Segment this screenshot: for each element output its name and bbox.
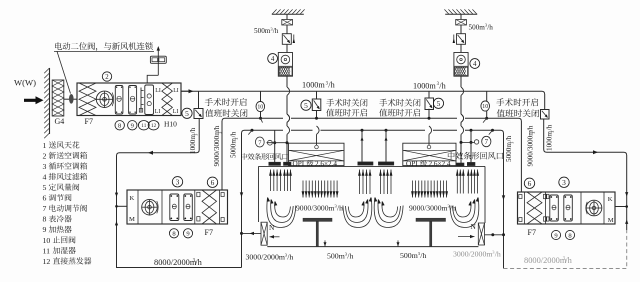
left stack duct lower with hops	[286, 76, 288, 87]
svg-text:/h: /h	[527, 125, 535, 131]
filter G4	[52, 80, 64, 116]
svg-text:/h: /h	[505, 135, 513, 141]
return grille bars middle	[358, 162, 373, 165]
room left wall	[258, 166, 260, 222]
AHU fan	[96, 91, 112, 107]
label circle 4 left	[268, 54, 278, 64]
electric two-position valve (ellipse)	[69, 94, 74, 104]
ceiling supply unit OPI room1	[289, 143, 345, 165]
check valve 10 left	[260, 91, 262, 102]
svg-text:5: 5	[43, 183, 47, 192]
left return loop duct	[117, 119, 242, 268]
room1 left airflow arcs	[267, 198, 296, 228]
left unit coil 9	[184, 194, 193, 221]
svg-text:500m: 500m	[469, 23, 486, 31]
text: closed during surgery / open on duty (mid-right)	[379, 99, 387, 107]
left stack damper (bowtie)	[282, 20, 293, 26]
right unit coil 9	[550, 195, 559, 221]
mid-right CAV valve 5	[428, 91, 430, 98]
svg-text:/h: /h	[230, 131, 238, 137]
labels 8 9 11 12 under AHU	[115, 121, 124, 130]
mid-left CAV valve 5	[316, 91, 318, 99]
right room return riser (5000)	[501, 130, 504, 268]
svg-text:H10: H10	[164, 119, 177, 128]
right stack regulating damper	[457, 34, 466, 45]
svg-text:/h: /h	[450, 203, 456, 212]
svg-text:8000/2000m: 8000/2000m	[154, 258, 197, 267]
svg-text:N: N	[269, 223, 275, 232]
svg-text:6: 6	[211, 178, 215, 187]
svg-text:/h: /h	[328, 81, 334, 90]
svg-text:/h: /h	[347, 252, 353, 261]
svg-text:/h: /h	[287, 252, 293, 261]
right return loop duct	[544, 119, 627, 230]
operating table room2	[416, 218, 446, 221]
room right wall	[484, 166, 486, 223]
room2 supply down-arrow cluster	[412, 181, 414, 198]
svg-text:9000/3000m: 9000/3000m	[213, 130, 221, 167]
left unit labels	[172, 177, 182, 187]
svg-text:M: M	[129, 216, 135, 223]
svg-text:9000/3000m: 9000/3000m	[296, 203, 334, 212]
svg-text:G4: G4	[55, 117, 65, 126]
svg-text:5: 5	[185, 109, 189, 118]
right unit heater 8	[564, 195, 573, 221]
svg-text:1000m: 1000m	[413, 81, 436, 90]
label: electric valve interlocked with fresh-air unit	[55, 42, 62, 49]
supply drop into OPI room1	[316, 134, 318, 145]
svg-text:3000/2000m: 3000/2000m	[246, 252, 285, 261]
svg-text:/h: /h	[273, 27, 279, 35]
svg-text:500m: 500m	[327, 252, 345, 261]
svg-text:/h: /h	[337, 203, 343, 212]
left unit outlet seals	[221, 193, 224, 197]
svg-text:LI: LI	[155, 109, 161, 115]
right recirc unit casing	[518, 192, 616, 224]
svg-text:5: 5	[304, 101, 308, 110]
svg-text:2: 2	[43, 151, 47, 160]
label circle 7 left	[255, 137, 264, 147]
right exhaust roof outlet hatching	[445, 13, 477, 15]
AHU label circle 2	[102, 72, 111, 81]
far-right CAV valve 5	[541, 110, 550, 120]
svg-text:2.6×2.4: 2.6×2.4	[315, 160, 337, 168]
svg-text:5: 5	[437, 99, 441, 108]
svg-text:12: 12	[151, 123, 157, 129]
svg-text:500m: 500m	[254, 27, 271, 35]
main supply duct	[181, 91, 545, 109]
svg-text:F7: F7	[85, 117, 93, 126]
svg-text:W(W): W(W)	[14, 78, 36, 88]
right stack duct upper	[460, 14, 462, 19]
heater 9	[129, 86, 137, 115]
svg-text:/h: /h	[189, 127, 197, 133]
left room return riser (5000)	[242, 130, 245, 267]
right stack duct lower with hops	[460, 76, 462, 87]
room2 left airflow arcs	[374, 198, 403, 228]
check valve 10 right	[486, 91, 488, 101]
middle grille risers	[361, 130, 363, 162]
return grille bars room1 left	[269, 162, 281, 165]
fresh air inlet arrow	[24, 96, 44, 104]
ceiling supply unit OPI room2	[403, 143, 456, 165]
svg-text:500m: 500m	[400, 251, 418, 260]
svg-text:8000/2000m: 8000/2000m	[524, 256, 567, 265]
room1 floor exhaust 500	[324, 240, 326, 246]
operating table room1	[303, 218, 332, 221]
right room exhaust valve N	[478, 223, 484, 245]
right unit labels	[524, 178, 534, 188]
svg-text:/h: /h	[565, 256, 572, 265]
svg-text:/h: /h	[546, 124, 554, 130]
text: closed during surgery / open on duty (mid-left)	[326, 99, 334, 107]
svg-text:K: K	[608, 196, 613, 203]
svg-text:4: 4	[473, 60, 477, 68]
label medium-efficiency strip return grille right	[448, 152, 455, 160]
svg-text:F7: F7	[205, 228, 213, 237]
room1 right airflow arcs	[343, 198, 372, 228]
wire duct G4 to AHU	[64, 98, 77, 100]
left unit heater 8	[170, 194, 179, 221]
AHU unit 2 casing	[77, 83, 181, 116]
svg-text:10: 10	[43, 236, 51, 245]
svg-text:2: 2	[105, 74, 109, 81]
left unit fan	[142, 199, 158, 215]
exhaust filter box 4 right	[454, 53, 468, 77]
svg-text:7: 7	[485, 139, 489, 146]
room1 return riser	[274, 130, 276, 162]
far-left CAV valve 5	[198, 91, 200, 108]
cooling coil 8	[115, 86, 123, 115]
svg-text:/h: /h	[195, 258, 202, 267]
direct evaporator 12	[145, 85, 154, 115]
svg-text:10: 10	[482, 104, 488, 110]
text: open during surgery / closed on duty (right)	[496, 98, 504, 106]
svg-text:M: M	[608, 217, 614, 224]
AHU filter F7	[79, 83, 96, 116]
svg-text:3000/2000m: 3000/2000m	[453, 250, 492, 259]
return grille bars room2 right	[456, 163, 464, 166]
svg-text:6: 6	[528, 179, 532, 188]
room2 return riser	[470, 130, 472, 162]
svg-text:9: 9	[43, 225, 47, 234]
svg-text:OPI: OPI	[406, 160, 418, 168]
svg-text:11: 11	[141, 123, 146, 129]
middle up-arrow clusters	[359, 170, 361, 195]
steam humidifier valve on AHU top	[150, 56, 166, 63]
svg-text:6: 6	[43, 194, 47, 203]
right unit inlet seals	[519, 195, 522, 199]
svg-text:3: 3	[43, 162, 47, 171]
svg-text:LI: LI	[173, 88, 179, 94]
room2 floor exhaust 500	[397, 240, 399, 246]
exhaust filter box 4 left	[278, 53, 292, 77]
svg-text:9000/3000m: 9000/3000m	[527, 130, 535, 167]
label circle 4 right	[470, 59, 480, 69]
label medium-efficiency strip return grille left	[241, 153, 247, 160]
svg-text:N: N	[471, 222, 477, 231]
return header line	[245, 129, 284, 131]
svg-text:/h: /h	[439, 81, 445, 90]
svg-text:11: 11	[43, 246, 51, 255]
svg-text:9000/3000m: 9000/3000m	[409, 203, 447, 212]
room1 supply down-arrow cluster	[302, 181, 304, 198]
svg-text:/h: /h	[495, 250, 501, 259]
svg-text:12: 12	[43, 257, 51, 266]
room2 right up-arrow cluster	[456, 170, 458, 194]
room floor line	[267, 246, 478, 248]
label circle 7 right	[482, 136, 491, 146]
left room exhaust valve N	[261, 222, 267, 245]
svg-text:1000m: 1000m	[302, 81, 325, 90]
outside wall with hatching	[49, 68, 51, 134]
svg-text:3: 3	[176, 177, 180, 186]
svg-text:10: 10	[257, 105, 263, 111]
svg-text:/h: /h	[487, 23, 493, 31]
svg-text:LI: LI	[155, 88, 161, 94]
right stack damper (bowtie)	[456, 20, 467, 26]
left recirc unit casing	[127, 190, 228, 224]
svg-text:/h: /h	[213, 125, 221, 131]
text: open during surgery / closed on duty (left)	[205, 98, 213, 106]
svg-text:/h: /h	[420, 251, 426, 260]
room1 left up-arrow cluster	[270, 170, 272, 192]
svg-text:7: 7	[43, 204, 47, 213]
left unit filter F7	[202, 190, 217, 224]
svg-text:F7: F7	[528, 228, 536, 237]
room1 grille connector with motor valve 7	[267, 142, 288, 144]
svg-text:4: 4	[271, 55, 275, 63]
svg-text:K: K	[130, 195, 135, 202]
room2 right airflow arcs	[450, 198, 479, 228]
svg-text:4: 4	[43, 172, 47, 181]
svg-text:LI: LI	[173, 109, 179, 115]
svg-text:2.6×2.4: 2.6×2.4	[429, 160, 451, 168]
left stack regulating damper	[282, 34, 291, 45]
left stack duct upper	[286, 14, 288, 19]
supply header line	[222, 118, 283, 190]
room2 grille connector with motor valve 7	[461, 141, 474, 143]
svg-text:3: 3	[562, 178, 566, 187]
svg-text:1: 1	[43, 141, 47, 150]
svg-text:OPI: OPI	[293, 160, 305, 168]
humidifier 11 (steam pipe)	[140, 88, 142, 112]
room ceiling line	[259, 165, 486, 167]
left exhaust roof outlet hatching	[272, 13, 304, 15]
right unit fan	[586, 200, 602, 216]
svg-text:8: 8	[43, 215, 47, 224]
right unit filter F7	[527, 192, 542, 224]
